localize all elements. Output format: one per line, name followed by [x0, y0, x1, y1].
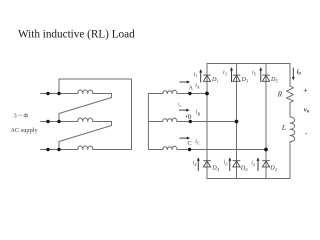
resistor R [287, 86, 294, 103]
current arrow i4 [197, 159, 199, 171]
wire supply line B [41, 121, 78, 123]
wire bridge top rail [207, 63, 290, 65]
wire secondary row c to bridge [177, 149, 266, 151]
inductor L [290, 117, 295, 142]
phase arrow C [180, 137, 189, 139]
node dot bridge A junction [205, 92, 209, 96]
node dot B2 delta junction [57, 120, 60, 123]
node dot A1 [46, 92, 49, 95]
node dot secondary A [188, 92, 191, 95]
svg-text:iA: iA [195, 83, 200, 90]
node dot A2 delta junction [57, 92, 60, 95]
diode D4 [203, 161, 211, 167]
wire bridge bottom rail [207, 178, 290, 180]
wire secondary row c left [148, 149, 162, 151]
node dot B1 [46, 120, 49, 123]
svg-text:R: R [277, 90, 283, 99]
wire after winding A [93, 93, 112, 95]
diode D5 [262, 75, 270, 81]
current arrow io [292, 68, 294, 79]
current arrow i2 [257, 159, 259, 171]
wire between R and L [289, 102, 291, 117]
node dot secondary B [189, 120, 192, 123]
current arrow i3 [231, 69, 233, 82]
wire bridge leg 2 [236, 64, 238, 179]
wire secondary neutral bus [147, 94, 149, 150]
svg-text:+: + [303, 86, 307, 95]
phase arrow B [179, 109, 188, 111]
node dot secondary C [188, 148, 191, 151]
node dot bridge B junction [235, 120, 239, 124]
wire bridge leg 3 [265, 64, 267, 179]
svg-text:+: + [267, 144, 270, 149]
svg-text:iC: iC [195, 139, 200, 146]
diode D2 [262, 161, 270, 167]
svg-text:•B: •B [185, 113, 191, 120]
node dot C1 [46, 148, 49, 151]
svg-text:A: A [189, 85, 194, 92]
phase arrow A [180, 81, 189, 83]
wire secondary row a left [148, 93, 162, 95]
svg-text:With inductive (RL) Load: With inductive (RL) Load [18, 29, 135, 41]
svg-text:iB: iB [196, 110, 201, 117]
diode D3 [233, 75, 241, 81]
primary winding phase B [78, 118, 93, 122]
diode D1 [203, 75, 211, 81]
primary winding phase C [78, 146, 93, 150]
wire supply line C [41, 149, 78, 151]
current arrow i6 [229, 159, 231, 171]
svg-text:3 ~ Φ: 3 ~ Φ [14, 113, 29, 120]
wire secondary row b to bridge [177, 121, 237, 123]
current arrow i1 [200, 71, 202, 83]
wire load branch bottom [289, 142, 291, 179]
diode D6 [233, 161, 241, 167]
wire load branch top [289, 64, 291, 86]
svg-text:is: is [178, 102, 181, 109]
wire supply line A [41, 93, 78, 95]
secondary winding a [163, 90, 177, 93]
primary winding phase A [78, 90, 93, 94]
svg-text:L: L [281, 123, 286, 132]
svg-text:C: C [188, 140, 192, 147]
current arrow i5 [260, 69, 262, 82]
secondary winding c [163, 146, 177, 149]
svg-text:i1: i1 [194, 72, 198, 79]
node dot C2 delta junction [57, 148, 60, 151]
wire delta top loop (A node up, across, down right side to C winding end) [59, 79, 132, 150]
wire diagonal winding B to node C [59, 122, 112, 150]
wire secondary row a to bridge [177, 93, 207, 95]
wire secondary row b left [148, 121, 162, 123]
wire diagonal winding A to node B [59, 94, 112, 122]
svg-text:AC supply: AC supply [11, 127, 39, 134]
wire bridge leg 1 [206, 64, 208, 179]
secondary winding b [163, 118, 177, 121]
wire after winding B [93, 121, 112, 123]
node dot bridge C junction [264, 148, 268, 152]
